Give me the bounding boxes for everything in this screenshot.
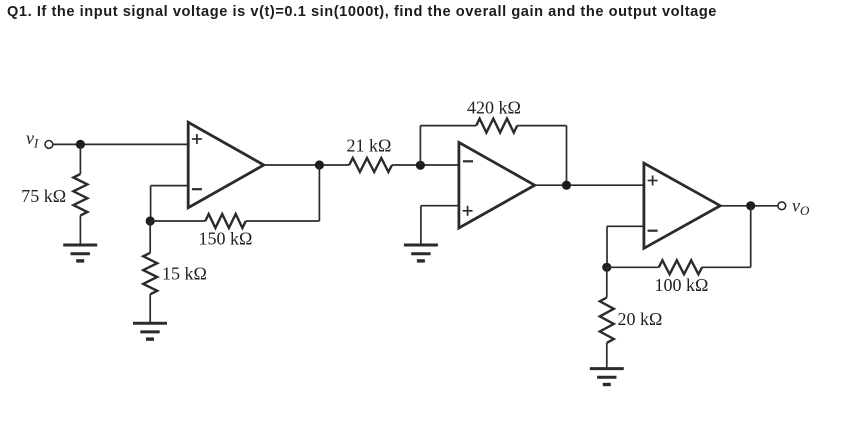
op-amp U2 plus sign	[463, 210, 473, 212]
junction node D (U2 inverting input)	[416, 161, 425, 170]
svg-text:420 kΩ: 420 kΩ	[467, 97, 521, 117]
resistor 21 kOhm	[349, 158, 392, 172]
svg-text:vI: vI	[26, 128, 39, 151]
junction node C (U1 output)	[315, 160, 324, 169]
wire U1 output to node C	[264, 164, 349, 166]
junction node G (U3 output)	[746, 201, 755, 210]
wire U1 inverting input stub	[151, 185, 189, 187]
wire U1 inverting input down to feedback node	[150, 186, 152, 221]
wire feedback left segment to node B	[150, 220, 205, 222]
resistor 75 kOhm	[73, 174, 87, 216]
wire feedback right segment U3	[702, 266, 751, 268]
junction node A (vI / 75k)	[76, 140, 85, 149]
op-amp U3 plus sign	[648, 180, 658, 182]
junction node F (U3 feedback / 20k)	[602, 263, 611, 272]
ground G4	[590, 367, 624, 370]
ground G1	[63, 244, 97, 247]
op-amp U3	[644, 163, 720, 248]
wire U3 output to terminal	[720, 205, 778, 207]
wire feedback top left segment	[420, 125, 476, 127]
ground G2	[133, 322, 167, 325]
title: question text	[7, 4, 717, 20]
terminal circle vI	[45, 141, 53, 149]
resistor 420 kOhm	[476, 119, 517, 133]
wire 21k to U2 inverting input	[392, 164, 459, 166]
wire node B down to 15k	[149, 221, 151, 253]
svg-text:15 kΩ: 15 kΩ	[162, 264, 207, 284]
wire 75k to ground	[79, 216, 81, 246]
wire feedback right segment	[246, 220, 320, 222]
wire U2 + input down to ground	[420, 206, 422, 245]
wire U2 + input stub	[421, 205, 459, 207]
svg-text:100 kΩ: 100 kΩ	[655, 275, 709, 295]
ground G3	[404, 244, 438, 247]
terminal circle vO	[778, 202, 786, 210]
resistor 150 kOhm	[205, 214, 246, 228]
wire U2 output to U3 + input	[535, 184, 644, 186]
op-amp U1 plus sign	[192, 138, 202, 140]
svg-text:150 kΩ: 150 kΩ	[199, 229, 253, 249]
resistor 100 kOhm	[659, 260, 702, 274]
wire U3 inverting down to node F	[606, 226, 608, 267]
svg-text:75 kΩ: 75 kΩ	[21, 186, 66, 206]
resistor 15 kOhm	[143, 253, 157, 294]
op-amp U2 minus sign	[463, 160, 473, 162]
wire vI to op-amp U1 + input	[53, 143, 188, 145]
wire node G down to 100k feedback	[750, 206, 752, 267]
wire node F down to 20k	[606, 267, 608, 297]
junction node E (U2 output)	[562, 181, 571, 190]
wire feedback down to U2 output	[566, 126, 568, 186]
op-amp U2	[459, 142, 535, 228]
op-amp U3 minus sign	[648, 230, 658, 232]
junction node B (U1 feedback / 15k)	[146, 216, 155, 225]
svg-text:20 kΩ: 20 kΩ	[618, 309, 663, 329]
wire node A down to 75k resistor	[79, 144, 81, 174]
wire feedback left segment to node F	[607, 266, 659, 268]
svg-text:vO: vO	[792, 196, 810, 219]
svg-text:21 kΩ: 21 kΩ	[347, 135, 392, 155]
wire 15k to ground	[149, 294, 151, 323]
wire U3 inverting input stub	[607, 225, 644, 227]
wire node C down to feedback	[318, 165, 320, 221]
wire feedback top right segment	[517, 125, 566, 127]
wire 20k to ground	[606, 343, 608, 369]
op-amp U1	[188, 122, 264, 207]
wire node D up to 420k feedback	[419, 126, 421, 166]
resistor 20 kOhm	[600, 298, 614, 343]
op-amp U1 minus sign	[192, 188, 202, 190]
